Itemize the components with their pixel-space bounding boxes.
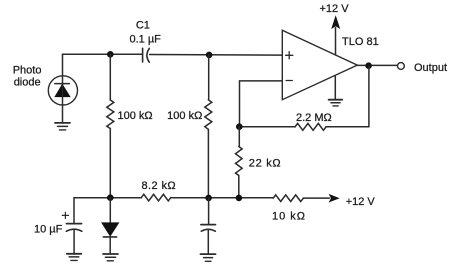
photodiode D1 lead top xyxy=(62,54,64,122)
diode D2 xyxy=(102,223,119,237)
resistor R1 lead bottom xyxy=(109,129,111,198)
svg-text:Photo: Photo xyxy=(13,65,42,77)
node junction dot feedback xyxy=(236,123,243,130)
svg-text:100 kΩ: 100 kΩ xyxy=(118,110,153,122)
wire feedback right xyxy=(326,126,369,128)
capacitor C3 lead top xyxy=(208,198,210,224)
svg-text:22 kΩ: 22 kΩ xyxy=(249,157,282,169)
resistor R4 22 kOhm xyxy=(236,147,243,176)
svg-text:C1: C1 xyxy=(136,20,150,32)
node junction dot C (bottom of R1) xyxy=(107,194,114,201)
svg-text:8.2 kΩ: 8.2 kΩ xyxy=(142,180,176,192)
resistor R2 100k lead top xyxy=(208,55,210,100)
wire bottom middle xyxy=(171,197,273,199)
resistor R1 100k lead top xyxy=(109,54,111,100)
ground (op-amp) xyxy=(329,100,343,106)
arrow to +12V (right) xyxy=(329,194,340,203)
wire top left (photodiode to C1) xyxy=(63,53,143,55)
ground pin of op-amp xyxy=(334,76,336,99)
node junction dot output xyxy=(365,62,372,69)
capacitor C2 10uF xyxy=(62,212,82,231)
wire feedback left xyxy=(239,126,295,128)
svg-text:diode: diode xyxy=(14,77,41,89)
photodiode D1 xyxy=(48,76,77,105)
svg-text:0.1 µF: 0.1 µF xyxy=(129,33,161,45)
output terminal circle xyxy=(398,63,405,70)
resistor R2 100 kOhm xyxy=(205,100,212,130)
node junction dot B (top of R2) xyxy=(206,52,213,59)
ground (C2) xyxy=(67,254,82,261)
resistor R6 10 kOhm xyxy=(273,195,303,202)
capacitor C3 lead bottom xyxy=(207,230,209,254)
node junction dot E (bottom of R4) xyxy=(236,195,243,202)
resistor R2 lead bottom xyxy=(207,129,209,198)
ground (D2) xyxy=(103,254,118,261)
diode D2 lead top xyxy=(109,198,111,223)
svg-text:+12 V: +12 V xyxy=(320,3,350,15)
svg-text:2.2 MΩ: 2.2 MΩ xyxy=(296,112,332,124)
resistor R4 lead bottom xyxy=(238,176,240,198)
wire inverting input xyxy=(240,81,283,127)
wire bottom right to +12V xyxy=(303,197,329,199)
op-amp U1 TLO 81 xyxy=(282,30,357,100)
svg-text:+12 V: +12 V xyxy=(346,196,376,208)
resistor R5 8.2 kOhm xyxy=(141,194,171,201)
wire output xyxy=(357,64,397,66)
wire bottom left xyxy=(74,197,141,199)
resistor R4 22k lead top xyxy=(238,127,240,147)
capacitor C2 10uF wire xyxy=(73,198,75,223)
power pin +12V of op-amp xyxy=(331,15,340,55)
node junction dot D (bottom of R2) xyxy=(205,195,212,202)
svg-text:Output: Output xyxy=(414,62,447,74)
capacitor C1 xyxy=(143,48,150,62)
ground (C3) xyxy=(201,254,216,261)
svg-text:TLO 81: TLO 81 xyxy=(342,36,379,48)
node junction dot A (top of R1) xyxy=(107,51,114,58)
svg-text:10 kΩ: 10 kΩ xyxy=(272,210,306,222)
diode D2 lead bottom xyxy=(109,237,111,254)
capacitor C2 lead bottom xyxy=(73,230,75,253)
resistor R1 100 kOhm xyxy=(107,100,114,129)
svg-text:100 kΩ: 100 kΩ xyxy=(167,110,202,122)
resistor R3 2.2 MOhm xyxy=(295,123,326,130)
capacitor C3 xyxy=(201,225,215,232)
wire top right (C1 to op-amp + input) xyxy=(150,54,283,57)
ground (photodiode) xyxy=(55,123,70,130)
svg-text:10 µF: 10 µF xyxy=(34,223,63,235)
wire feedback vertical xyxy=(368,66,370,127)
